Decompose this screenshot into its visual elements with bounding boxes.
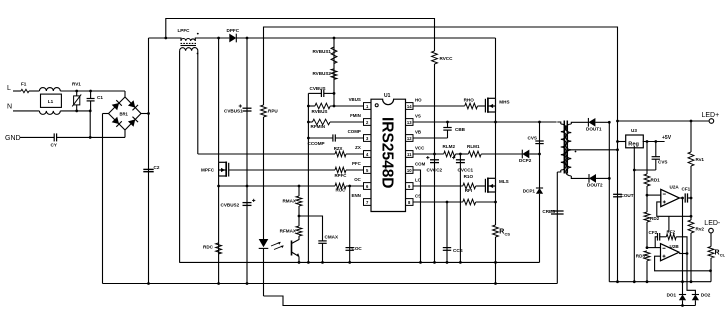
svg-text:VS: VS [415,113,421,118]
svg-text:CBB: CBB [455,127,466,132]
svg-text:RLM1: RLM1 [467,144,480,149]
svg-text:C1: C1 [97,95,103,100]
svg-text:U3: U3 [631,128,637,133]
svg-text:RD1: RD1 [651,178,661,183]
svg-text:RFMIN: RFMIN [311,124,326,129]
svg-text:MHS: MHS [499,99,509,104]
svg-text:U2B: U2B [670,244,680,249]
svg-text:CVCC2: CVCC2 [427,168,443,173]
svg-text:IRS2548D: IRS2548D [378,117,395,189]
svg-text:VCC: VCC [415,145,425,150]
svg-text:GND: GND [5,135,21,142]
svg-text:14: 14 [407,104,412,109]
svg-text:R: R [499,229,504,236]
svg-text:FMIN: FMIN [350,113,361,118]
svg-text:CVS: CVS [528,136,537,141]
svg-text:DOUT2: DOUT2 [587,183,603,188]
svg-text:RVBUS: RVBUS [312,109,328,114]
svg-text:CVS: CVS [658,160,667,165]
svg-text:LED+: LED+ [702,112,720,119]
svg-text:10: 10 [407,168,412,173]
svg-text:C2: C2 [154,165,160,170]
svg-text:CS: CS [505,231,511,236]
svg-text:CY: CY [51,143,57,148]
svg-text:RLM2: RLM2 [443,144,456,149]
svg-text:CF2: CF2 [649,230,658,235]
svg-text:RD3: RD3 [636,254,646,259]
svg-text:MPFC: MPFC [201,168,215,173]
svg-text:L1: L1 [48,99,54,104]
svg-text:+5V: +5V [662,135,672,141]
svg-text:U2A: U2A [670,185,680,190]
svg-text:CCS: CCS [453,248,463,253]
svg-text:RV1: RV1 [72,82,81,87]
svg-text:N: N [7,104,12,111]
svg-text:RMAX: RMAX [282,199,296,204]
svg-text:LED-: LED- [704,220,721,227]
svg-text:RHO: RHO [464,97,475,102]
svg-text:OC: OC [354,177,361,182]
svg-text:RPFC: RPFC [335,173,348,178]
svg-text:RDC: RDC [203,245,214,250]
svg-text:CVBUS2: CVBUS2 [221,203,240,208]
svg-text:COMP: COMP [348,129,361,134]
svg-text:CMAX: CMAX [325,235,339,240]
svg-text:RZX: RZX [334,146,343,151]
svg-text:DCP1: DCP1 [523,189,536,194]
svg-text:R1O: R1O [464,174,474,179]
svg-text:DO1: DO1 [667,293,677,298]
svg-text:RVBUS2: RVBUS2 [312,71,331,76]
svg-text:L: L [7,85,11,92]
svg-text:13: 13 [407,120,412,125]
svg-text:RVBUS1: RVBUS1 [312,49,331,54]
svg-text:COC: COC [352,246,363,251]
svg-text:PFC: PFC [352,161,362,166]
svg-text:CCOMP: CCOMP [308,141,325,146]
svg-text:ENN: ENN [352,193,361,198]
svg-text:VB: VB [415,129,421,134]
svg-text:Rv2: Rv2 [696,227,705,232]
svg-text:CF1: CF1 [682,187,691,192]
svg-text:R: R [715,250,720,257]
svg-text:CVCC1: CVCC1 [458,168,474,173]
svg-text:11: 11 [407,152,412,157]
svg-text:F1: F1 [21,82,27,87]
svg-text:RPU: RPU [268,109,278,114]
svg-text:ROC: ROC [336,187,347,192]
svg-text:CVBUS1: CVBUS1 [224,109,243,114]
svg-text:U1: U1 [384,93,391,99]
svg-text:CVBUS: CVBUS [310,86,326,91]
svg-text:12: 12 [407,136,412,141]
svg-text:RF2: RF2 [667,230,676,235]
svg-text:ZX: ZX [355,145,361,150]
svg-text:DOUT1: DOUT1 [586,127,602,132]
svg-text:DCP2: DCP2 [519,158,532,163]
svg-text:COUT: COUT [621,193,634,198]
svg-text:MLS: MLS [499,179,509,184]
svg-text:BR1: BR1 [120,111,129,116]
svg-text:LPFC: LPFC [178,28,191,33]
svg-text:RFMAX: RFMAX [280,229,297,234]
svg-text:DO2: DO2 [701,293,711,298]
svg-text:HO: HO [415,97,422,102]
svg-text:DPFC: DPFC [227,28,240,33]
svg-text:VBUS: VBUS [349,97,361,102]
svg-text:CRES: CRES [542,209,555,214]
svg-text:RFI: RFI [465,188,472,193]
svg-text:CL: CL [720,252,726,257]
svg-text:COM: COM [415,161,426,166]
svg-text:Rv1: Rv1 [696,157,705,162]
svg-text:RVCC: RVCC [440,56,454,61]
